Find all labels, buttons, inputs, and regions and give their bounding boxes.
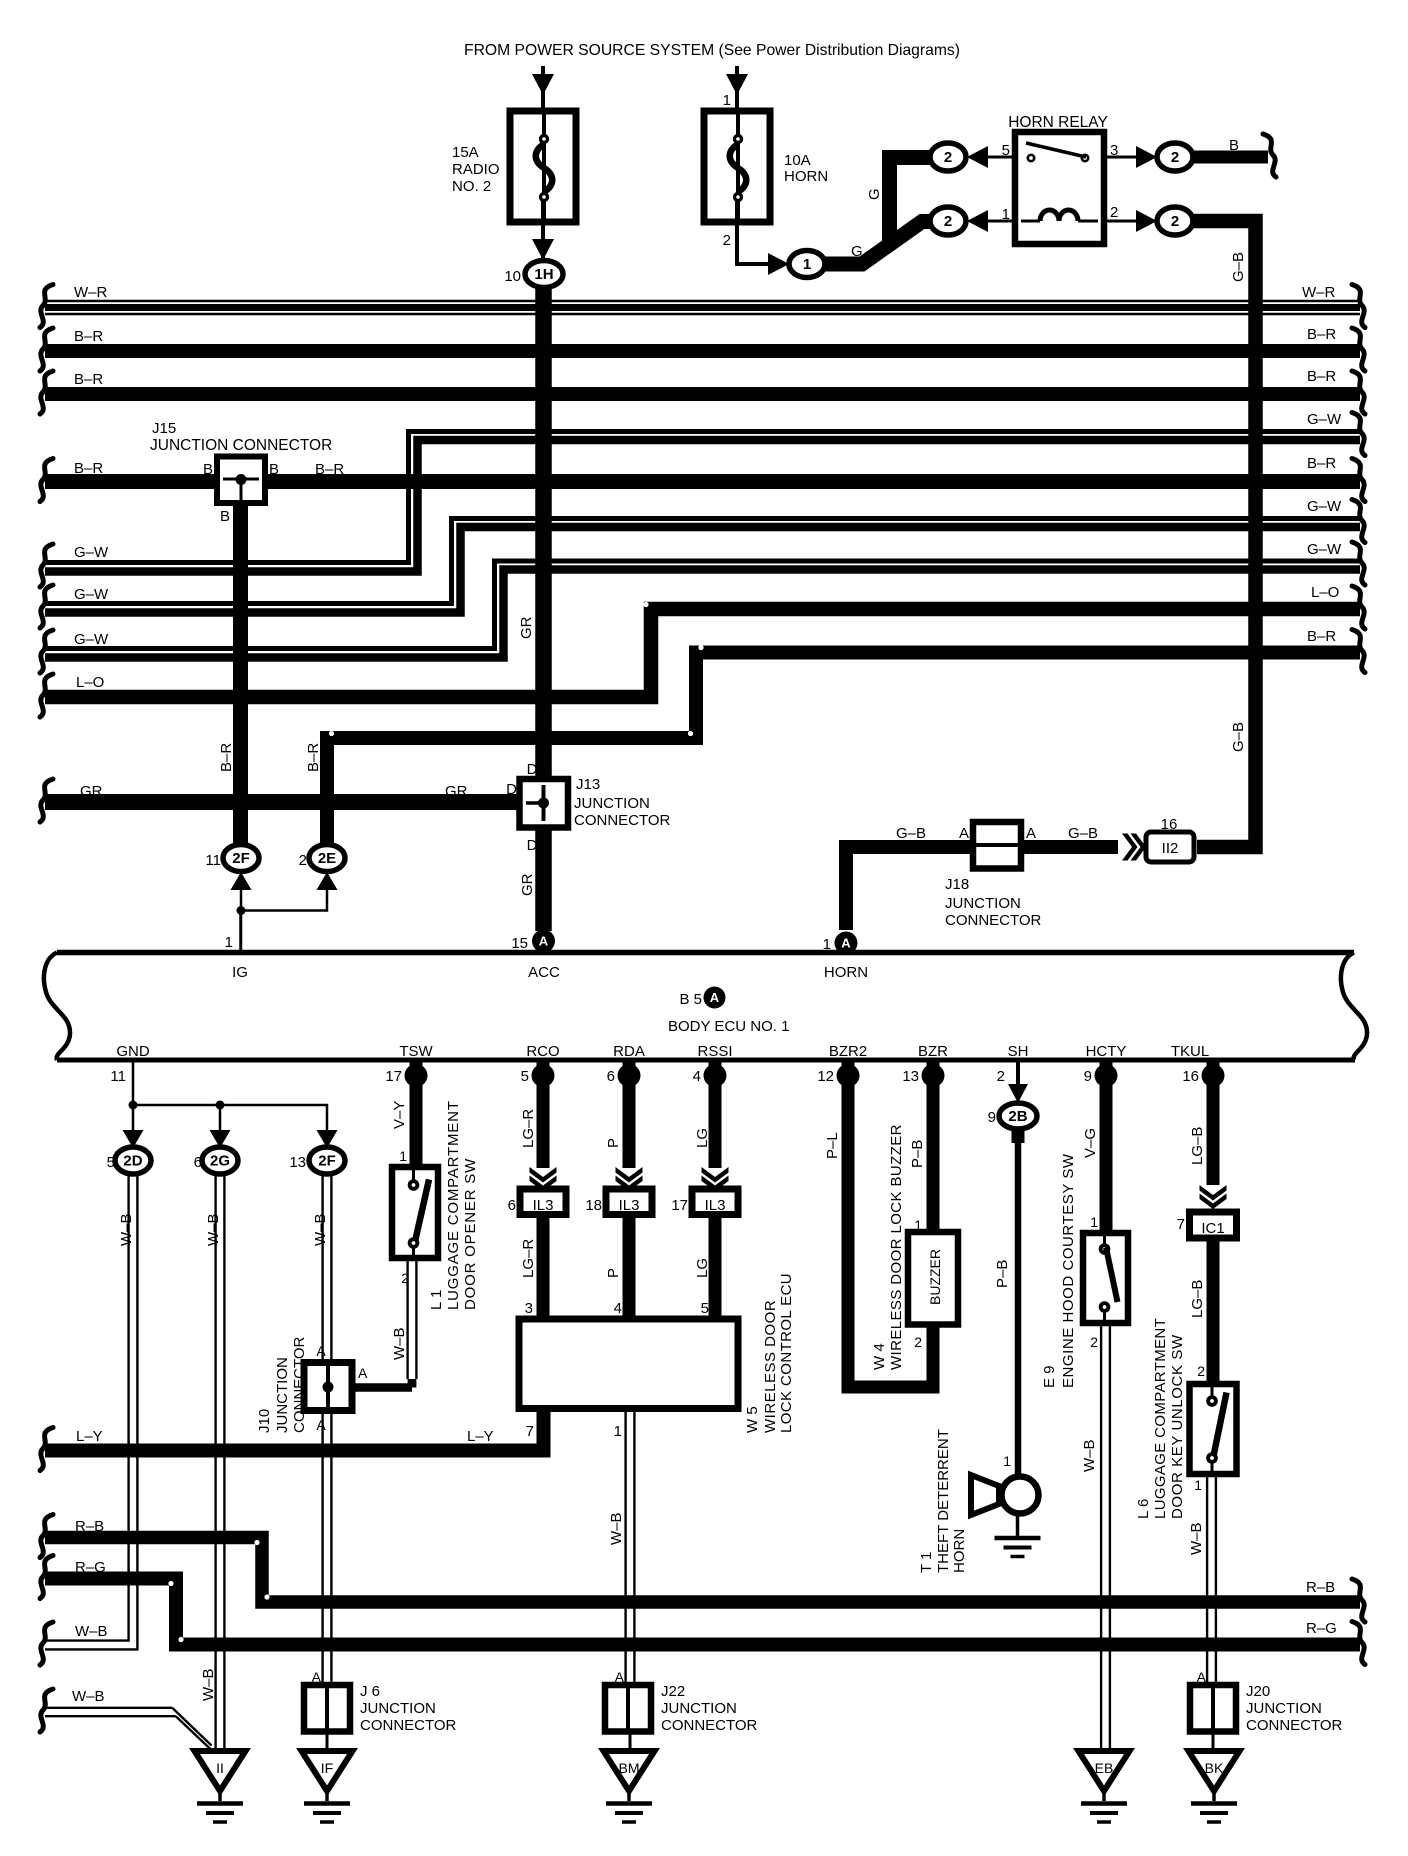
svg-text:RCO: RCO [526, 1043, 559, 1060]
svg-text:ENGINE HOOD COURTESY SW: ENGINE HOOD COURTESY SW [1060, 1153, 1077, 1388]
wire V-Y from TSW pin to switch L1 [410, 1062, 423, 1167]
svg-text:SH: SH [1008, 1043, 1029, 1060]
svg-text:1: 1 [723, 92, 731, 109]
wire V-G from HCTY pin to switch E9 [1100, 1062, 1113, 1233]
svg-text:A: A [316, 1417, 326, 1433]
junction connector J22 [605, 1685, 651, 1732]
svg-text:A: A [358, 1365, 368, 1381]
svg-text:J 6: J 6 [360, 1683, 380, 1700]
svg-text:LG–R: LG–R [520, 1109, 537, 1148]
wire W-B from E9 to ground EB [1100, 1323, 1102, 1751]
ECU pin 1 HORN [835, 932, 858, 955]
wire W-R bus row [45, 300, 1360, 302]
svg-text:R–B: R–B [1306, 1579, 1335, 1596]
fuse 10A HORN [704, 111, 770, 222]
svg-text:B–R: B–R [1307, 628, 1336, 645]
wire P-B from 2B to theft deterrent horn [1012, 1129, 1025, 1143]
svg-text:IL3: IL3 [619, 1197, 640, 1214]
svg-text:W–B: W–B [72, 1688, 105, 1705]
junction connector J10 [304, 1363, 352, 1411]
wire P from IL3 to ECU W5 [623, 1215, 636, 1320]
svg-text:RSSI: RSSI [697, 1043, 732, 1060]
svg-text:G–B: G–B [896, 825, 926, 842]
svg-text:D: D [527, 761, 538, 778]
svg-text:A: A [1026, 825, 1036, 842]
svg-text:10A: 10A [784, 152, 811, 169]
svg-text:2: 2 [1171, 149, 1179, 166]
svg-text:4: 4 [693, 1068, 701, 1085]
svg-text:B: B [1229, 137, 1239, 154]
svg-text:HORN: HORN [824, 964, 868, 981]
junction connector J13 [520, 779, 569, 828]
svg-text:W 4: W 4 [871, 1343, 888, 1370]
svg-text:2: 2 [1090, 1334, 1098, 1350]
svg-text:15A: 15A [452, 144, 479, 161]
ECU pin 1 IG [239, 910, 242, 952]
wire IG pin 1 junction [231, 872, 252, 890]
wire B-R bus row 2 [45, 387, 1360, 401]
svg-text:2: 2 [1197, 1363, 1205, 1379]
wire W-B lower pigtail to ground II [45, 1707, 172, 1709]
svg-text:5: 5 [701, 1300, 709, 1317]
connector 18 IL3 [606, 1189, 652, 1215]
wire G-B from relay down right side [1193, 221, 1256, 847]
switch L1 LUGGAGE COMPARTMENT DOOR OPENER SW [392, 1167, 438, 1258]
wire feed into fuse 10A [735, 66, 739, 135]
svg-text:CONNECTOR: CONNECTOR [574, 812, 671, 829]
svg-text:DOOR OPENER SW: DOOR OPENER SW [462, 1158, 479, 1310]
svg-text:W–B: W–B [391, 1327, 408, 1360]
svg-text:J22: J22 [661, 1683, 685, 1700]
svg-text:16: 16 [1161, 816, 1178, 833]
svg-text:G: G [866, 188, 883, 200]
svg-text:13: 13 [902, 1068, 919, 1085]
connector 2 (relay output G-B) [1157, 207, 1193, 235]
svg-text:IL3: IL3 [533, 1197, 554, 1214]
svg-text:W–B: W–B [200, 1668, 217, 1701]
wire LG-B from TKUL pin to IC1 [1207, 1062, 1220, 1185]
svg-text:T 1: T 1 [918, 1552, 935, 1573]
svg-text:A: A [312, 1669, 322, 1685]
svg-text:B–R: B–R [1307, 455, 1336, 472]
wire LG–R from IL3 to ECU W5 [537, 1215, 550, 1320]
svg-text:BUZZER: BUZZER [927, 1249, 943, 1305]
svg-text:10: 10 [504, 268, 521, 285]
svg-text:B–R: B–R [315, 461, 344, 478]
svg-text:LUGGAGE COMPARTMENT: LUGGAGE COMPARTMENT [445, 1100, 462, 1310]
svg-text:P: P [605, 1268, 622, 1278]
svg-text:LG–R: LG–R [520, 1239, 537, 1278]
svg-text:V–G: V–G [1082, 1128, 1099, 1158]
svg-text:2F: 2F [232, 850, 250, 867]
svg-text:FROM POWER SOURCE SYSTEM (See: FROM POWER SOURCE SYSTEM (See Power Dist… [464, 42, 960, 59]
svg-text:R–B: R–B [75, 1518, 104, 1535]
svg-text:L–O: L–O [1311, 584, 1339, 601]
connector 1 (horn circuit) [789, 251, 825, 278]
wire B-R from J15 down to connector 2F [233, 503, 248, 849]
svg-text:RADIO: RADIO [452, 161, 500, 178]
wire GND from pin 11 [132, 1058, 135, 1105]
svg-text:V–Y: V–Y [391, 1101, 408, 1129]
svg-text:NO. 2: NO. 2 [452, 178, 491, 195]
svg-text:CONNECTOR: CONNECTOR [1246, 1717, 1343, 1734]
wire G-B from J18 to II2 [1021, 840, 1118, 854]
svg-text:ACC: ACC [528, 964, 560, 981]
svg-text:LUGGAGE COMPARTMENT: LUGGAGE COMPARTMENT [1152, 1318, 1169, 1519]
connector 6 IL3 [520, 1189, 566, 1215]
svg-text:LOCK CONTROL ECU: LOCK CONTROL ECU [778, 1273, 795, 1433]
svg-text:P–L: P–L [824, 1132, 841, 1159]
wire GR vertical from fuse 1H to ECU ACC pin [535, 287, 552, 779]
svg-text:B–R: B–R [74, 371, 103, 388]
svg-text:A: A [615, 1669, 625, 1685]
svg-text:J15: J15 [152, 420, 176, 437]
svg-text:16: 16 [1182, 1068, 1199, 1085]
svg-text:9: 9 [1084, 1068, 1092, 1085]
svg-text:GND: GND [116, 1043, 150, 1060]
svg-text:D: D [527, 837, 538, 854]
svg-text:JUNCTION CONNECTOR: JUNCTION CONNECTOR [150, 437, 332, 454]
svg-text:17: 17 [671, 1197, 688, 1214]
connector 13 2F [317, 1130, 338, 1148]
wire B-R bus row 3 (J15 row) [45, 474, 1360, 489]
svg-text:G–B: G–B [1068, 825, 1098, 842]
wire L-Y from W5 pin 7 to left pigtail [45, 1408, 544, 1451]
svg-text:GR: GR [445, 783, 468, 800]
wire B-R from connector 2E to right row y652 [327, 653, 1360, 854]
svg-text:LG–B: LG–B [1189, 1280, 1206, 1318]
svg-text:15: 15 [511, 935, 528, 952]
svg-text:BODY ECU NO. 1: BODY ECU NO. 1 [668, 1018, 789, 1035]
ground BM [604, 1751, 655, 1791]
svg-text:G–W: G–W [74, 544, 109, 561]
wire R-G row [45, 1579, 1360, 1645]
svg-text:J18: J18 [945, 876, 969, 893]
svg-text:JUNCTION: JUNCTION [274, 1357, 291, 1433]
svg-text:B–R: B–R [74, 328, 103, 345]
connector 2 to relay pin 5 [930, 143, 966, 171]
svg-text:G–W: G–W [74, 586, 109, 603]
connector 16 II2 [1146, 832, 1194, 862]
svg-text:HCTY: HCTY [1086, 1043, 1127, 1060]
ECU body outline BODY ECU NO. 1 [57, 950, 1354, 956]
wire P-L from BZR2 pin [848, 1062, 933, 1387]
svg-text:A: A [841, 936, 851, 951]
svg-text:P–B: P–B [909, 1140, 926, 1168]
wire W-B from 2D to left pigtail [45, 1174, 129, 1641]
svg-text:TSW: TSW [399, 1043, 433, 1060]
svg-text:6: 6 [508, 1197, 516, 1214]
wire W-B from 2G to ground II [214, 1174, 216, 1751]
svg-text:HORN RELAY: HORN RELAY [1008, 114, 1108, 131]
svg-text:IG: IG [232, 964, 248, 981]
svg-text:B–R: B–R [74, 460, 103, 477]
junction connector J18 [973, 822, 1021, 869]
connector 2 to relay pin 1 [930, 207, 966, 235]
svg-text:RDA: RDA [613, 1043, 645, 1060]
svg-text:B 5: B 5 [679, 991, 702, 1008]
svg-text:W–B: W–B [118, 1213, 135, 1246]
svg-text:GR: GR [519, 873, 536, 896]
wire SH pin to connector 2B [1016, 1062, 1020, 1088]
svg-text:1: 1 [225, 934, 233, 951]
svg-text:WIRELESS DOOR LOCK BUZZER: WIRELESS DOOR LOCK BUZZER [888, 1124, 905, 1370]
wire W-B from W5 pin 1 to J22 [624, 1408, 626, 1685]
svg-text:P: P [605, 1138, 622, 1148]
svg-text:11: 11 [205, 852, 221, 869]
svg-text:L 1: L 1 [428, 1290, 445, 1310]
svg-text:A: A [539, 934, 549, 949]
svg-text:2: 2 [723, 232, 731, 249]
wire G-B from ECU HORN pin to J18 [846, 847, 973, 930]
svg-text:TKUL: TKUL [1171, 1043, 1209, 1060]
svg-text:11: 11 [110, 1068, 126, 1085]
wire LG from IL3 to ECU W5 [709, 1215, 722, 1320]
svg-text:GR: GR [518, 616, 535, 639]
junction connector J6 [304, 1685, 350, 1732]
svg-text:5: 5 [1002, 142, 1010, 159]
horn T1 THEFT DETERRENT HORN [1002, 1477, 1039, 1514]
svg-text:IC1: IC1 [1201, 1220, 1224, 1237]
svg-text:B: B [269, 461, 279, 478]
wire G from connector 1 to horn relay [824, 222, 931, 265]
svg-text:2: 2 [944, 213, 952, 230]
svg-text:W–B: W–B [312, 1213, 329, 1246]
svg-text:W 5: W 5 [744, 1406, 761, 1433]
svg-text:GR: GR [80, 783, 103, 800]
svg-text:II: II [216, 1760, 224, 1776]
svg-text:6: 6 [194, 1154, 202, 1171]
svg-text:G–W: G–W [1307, 541, 1342, 558]
wire W-B from L6 to J20 and ground BK [1206, 1474, 1208, 1686]
svg-text:5: 5 [107, 1154, 115, 1171]
svg-text:3: 3 [525, 1300, 533, 1317]
svg-text:HORN: HORN [784, 168, 828, 185]
svg-text:W–B: W–B [608, 1512, 625, 1545]
ground BK [1189, 1751, 1240, 1791]
svg-text:9: 9 [988, 1109, 996, 1126]
svg-text:B: B [203, 461, 213, 478]
svg-text:HORN: HORN [951, 1529, 968, 1573]
connector 6 2G [210, 1130, 231, 1148]
svg-text:W–B: W–B [205, 1213, 222, 1246]
ground II [195, 1751, 246, 1791]
wire GR row to J13 [45, 794, 524, 810]
svg-text:G–W: G–W [74, 631, 109, 648]
wire LG from RSSI pin to IL3 [709, 1062, 722, 1168]
svg-text:BK: BK [1205, 1760, 1224, 1776]
wire B-R bus row 1 [45, 344, 1360, 358]
svg-text:IF: IF [321, 1760, 333, 1776]
svg-text:1: 1 [823, 936, 831, 953]
svg-text:LG: LG [694, 1128, 711, 1148]
svg-text:B–R: B–R [218, 743, 235, 772]
svg-text:J20: J20 [1246, 1683, 1270, 1700]
svg-text:JUNCTION: JUNCTION [360, 1700, 436, 1717]
svg-text:WIRELESS DOOR: WIRELESS DOOR [762, 1300, 779, 1433]
junction connector J20 [1190, 1685, 1236, 1732]
svg-text:1: 1 [614, 1423, 622, 1440]
svg-text:G–W: G–W [1307, 498, 1342, 515]
svg-text:B–R: B–R [1307, 326, 1336, 343]
svg-text:BM: BM [619, 1760, 640, 1776]
svg-text:B–R: B–R [1307, 368, 1336, 385]
svg-text:THEFT DETERRENT: THEFT DETERRENT [935, 1429, 952, 1573]
wire W-B from 2F through J10 and J6 to ground IF [321, 1174, 323, 1685]
wire LG–R from RCO pin to IL3 [537, 1062, 550, 1168]
svg-text:1: 1 [803, 256, 811, 273]
svg-text:DOOR KEY UNLOCK SW: DOOR KEY UNLOCK SW [1169, 1334, 1186, 1519]
svg-text:7: 7 [1177, 1216, 1185, 1233]
svg-text:17: 17 [385, 1068, 402, 1085]
wire feed into fuse 15A [541, 66, 545, 135]
svg-text:E 9: E 9 [1041, 1365, 1058, 1388]
wire G-W staircase 1 (left y562 to right y435) [45, 432, 1360, 563]
svg-text:L–Y: L–Y [467, 1428, 494, 1445]
svg-text:2: 2 [944, 149, 952, 166]
svg-text:CONNECTOR: CONNECTOR [945, 912, 1042, 929]
svg-text:CONNECTOR: CONNECTOR [661, 1717, 758, 1734]
svg-text:L–Y: L–Y [76, 1428, 103, 1445]
connector 10 1H [525, 261, 563, 288]
svg-text:D: D [506, 781, 517, 798]
svg-text:A: A [1197, 1669, 1207, 1685]
svg-text:P–B: P–B [994, 1260, 1011, 1288]
ground IF [302, 1751, 353, 1791]
bus row pigtails left [40, 285, 53, 328]
svg-text:BZR: BZR [918, 1043, 948, 1060]
svg-text:G–B: G–B [1230, 722, 1247, 752]
svg-text:W–R: W–R [74, 284, 108, 301]
wire G-W staircase 3 (left y653 to right y565) [45, 561, 1360, 649]
svg-text:IL3: IL3 [705, 1197, 726, 1214]
svg-text:II2: II2 [1162, 840, 1179, 857]
svg-text:7: 7 [526, 1423, 534, 1440]
svg-text:2: 2 [914, 1334, 922, 1350]
connector 17 IL3 [692, 1189, 738, 1215]
svg-text:2E: 2E [318, 850, 336, 867]
wire P-B from BZR pin to buzzer [927, 1062, 940, 1232]
svg-text:2: 2 [1110, 204, 1118, 221]
connector 9 2B [999, 1103, 1037, 1129]
svg-text:1: 1 [399, 1148, 407, 1164]
svg-text:JUNCTION: JUNCTION [945, 895, 1021, 912]
svg-text:1: 1 [1003, 1453, 1011, 1469]
connector 2 2E [309, 845, 345, 872]
svg-text:JUNCTION: JUNCTION [661, 1700, 737, 1717]
svg-text:R–G: R–G [75, 1559, 106, 1576]
svg-text:A: A [959, 825, 969, 842]
svg-text:R–G: R–G [1306, 1620, 1337, 1637]
svg-text:2G: 2G [210, 1153, 230, 1170]
connector 7 IC1 [1190, 1212, 1237, 1238]
svg-text:6: 6 [607, 1068, 615, 1085]
svg-text:A: A [710, 990, 720, 1005]
svg-text:1: 1 [1194, 1477, 1202, 1493]
svg-text:L–O: L–O [76, 674, 104, 691]
svg-text:CONNECTOR: CONNECTOR [360, 1717, 457, 1734]
wire W-B from L1 to J10 [406, 1258, 408, 1379]
wire G-W staircase 2 (left y608 to right y522) [45, 519, 1360, 604]
svg-text:L 6: L 6 [1135, 1499, 1152, 1519]
svg-text:5: 5 [521, 1068, 529, 1085]
svg-text:J13: J13 [576, 776, 600, 793]
ground at horn [1016, 1513, 1020, 1536]
svg-text:13: 13 [289, 1154, 306, 1171]
svg-text:EB: EB [1095, 1760, 1114, 1776]
svg-text:2B: 2B [1008, 1108, 1027, 1125]
svg-text:W–B: W–B [1081, 1439, 1098, 1472]
svg-text:2: 2 [1171, 213, 1179, 230]
svg-text:G–B: G–B [1230, 252, 1247, 282]
svg-text:4: 4 [614, 1300, 622, 1317]
svg-text:2: 2 [997, 1068, 1005, 1085]
switch E9 ENGINE HOOD COURTESY SW [1083, 1233, 1128, 1323]
svg-text:B: B [220, 508, 230, 525]
svg-text:CONNECTOR: CONNECTOR [291, 1336, 308, 1433]
svg-text:A: A [316, 1343, 326, 1359]
wire LG-B from IC1 to switch L6 [1207, 1238, 1220, 1384]
svg-text:12: 12 [817, 1068, 834, 1085]
bus row pigtails right [1352, 285, 1365, 328]
svg-text:JUNCTION: JUNCTION [574, 795, 650, 812]
wire L-O row (left y697 to right y609) [45, 609, 1360, 697]
fuse 15A RADIO NO. 2 [510, 111, 576, 222]
connector 5 2D [123, 1130, 144, 1148]
svg-text:1: 1 [1090, 1214, 1098, 1230]
svg-text:1H: 1H [534, 266, 553, 283]
svg-text:2: 2 [299, 852, 307, 869]
svg-text:JUNCTION: JUNCTION [1246, 1700, 1322, 1717]
ECU pin 15 ACC [532, 930, 555, 953]
svg-text:LG–B: LG–B [1189, 1127, 1206, 1165]
svg-text:2F: 2F [318, 1153, 336, 1170]
ground EB [1079, 1751, 1130, 1791]
connector 2 (relay output B) [1157, 143, 1193, 171]
switch L6 LUGGAGE COMPARTMENT DOOR KEY UNLOCK SW [1190, 1384, 1237, 1474]
svg-text:LG: LG [694, 1258, 711, 1278]
wire fuse 15A to connector 1H [541, 201, 545, 258]
wire P from RDA pin to IL3 [623, 1062, 636, 1168]
svg-text:W–B: W–B [75, 1623, 108, 1640]
svg-text:BZR2: BZR2 [829, 1043, 867, 1060]
svg-text:2D: 2D [123, 1153, 142, 1170]
ECU W5 WIRELESS DOOR LOCK CONTROL ECU [519, 1319, 738, 1409]
svg-text:G–W: G–W [1307, 411, 1342, 428]
wire R-B row [45, 1538, 1360, 1603]
svg-text:18: 18 [585, 1197, 602, 1214]
connector 11 2F [223, 845, 259, 872]
svg-text:W–B: W–B [1188, 1522, 1205, 1555]
svg-text:B–R: B–R [305, 743, 322, 772]
wire B to right pigtail [1193, 151, 1268, 164]
svg-text:J10: J10 [256, 1409, 273, 1433]
svg-text:W–R: W–R [1302, 284, 1336, 301]
svg-text:1: 1 [1002, 206, 1010, 223]
